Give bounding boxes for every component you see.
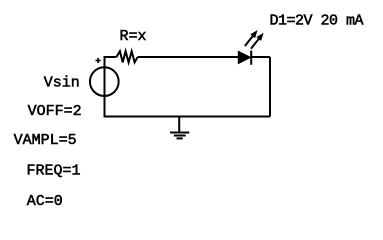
wire: top-left horizontal from source corner to resistor bbox=[104, 56, 117, 58]
svg-text:AC=0: AC=0 bbox=[27, 193, 63, 210]
wire: top-middle horizontal from resistor to LED bbox=[138, 56, 239, 58]
svg-text:VOFF=2: VOFF=2 bbox=[28, 103, 82, 120]
LED light arrow 1 bbox=[245, 30, 258, 46]
ground stem bbox=[178, 117, 180, 133]
svg-text:FREQ=1: FREQ=1 bbox=[27, 163, 81, 180]
svg-text:D1=2V 20 mA: D1=2V 20 mA bbox=[270, 13, 364, 30]
svg-text:R=x: R=x bbox=[120, 28, 147, 45]
wire: left vertical through source bbox=[104, 57, 106, 117]
wire: from cathode to top-right corner bbox=[251, 56, 270, 58]
LED D1 cathode bar bbox=[250, 51, 252, 65]
plus sign of source bbox=[96, 58, 101, 63]
wire: right vertical bbox=[269, 57, 271, 117]
ground bar 2 bbox=[174, 135, 186, 137]
ground bar 3 bbox=[177, 137, 183, 139]
wire: bottom horizontal bbox=[104, 116, 271, 118]
svg-text:Vsin: Vsin bbox=[44, 74, 80, 91]
ground bar 1 bbox=[170, 132, 189, 134]
svg-text:VAMPL=5: VAMPL=5 bbox=[14, 132, 77, 149]
resistor R1 zigzag bbox=[116, 51, 137, 62]
LED D1 triangle (anode) bbox=[238, 51, 250, 63]
LED light arrow 2 bbox=[251, 33, 264, 49]
voltage source V1 circle (Vsin) bbox=[90, 67, 119, 96]
